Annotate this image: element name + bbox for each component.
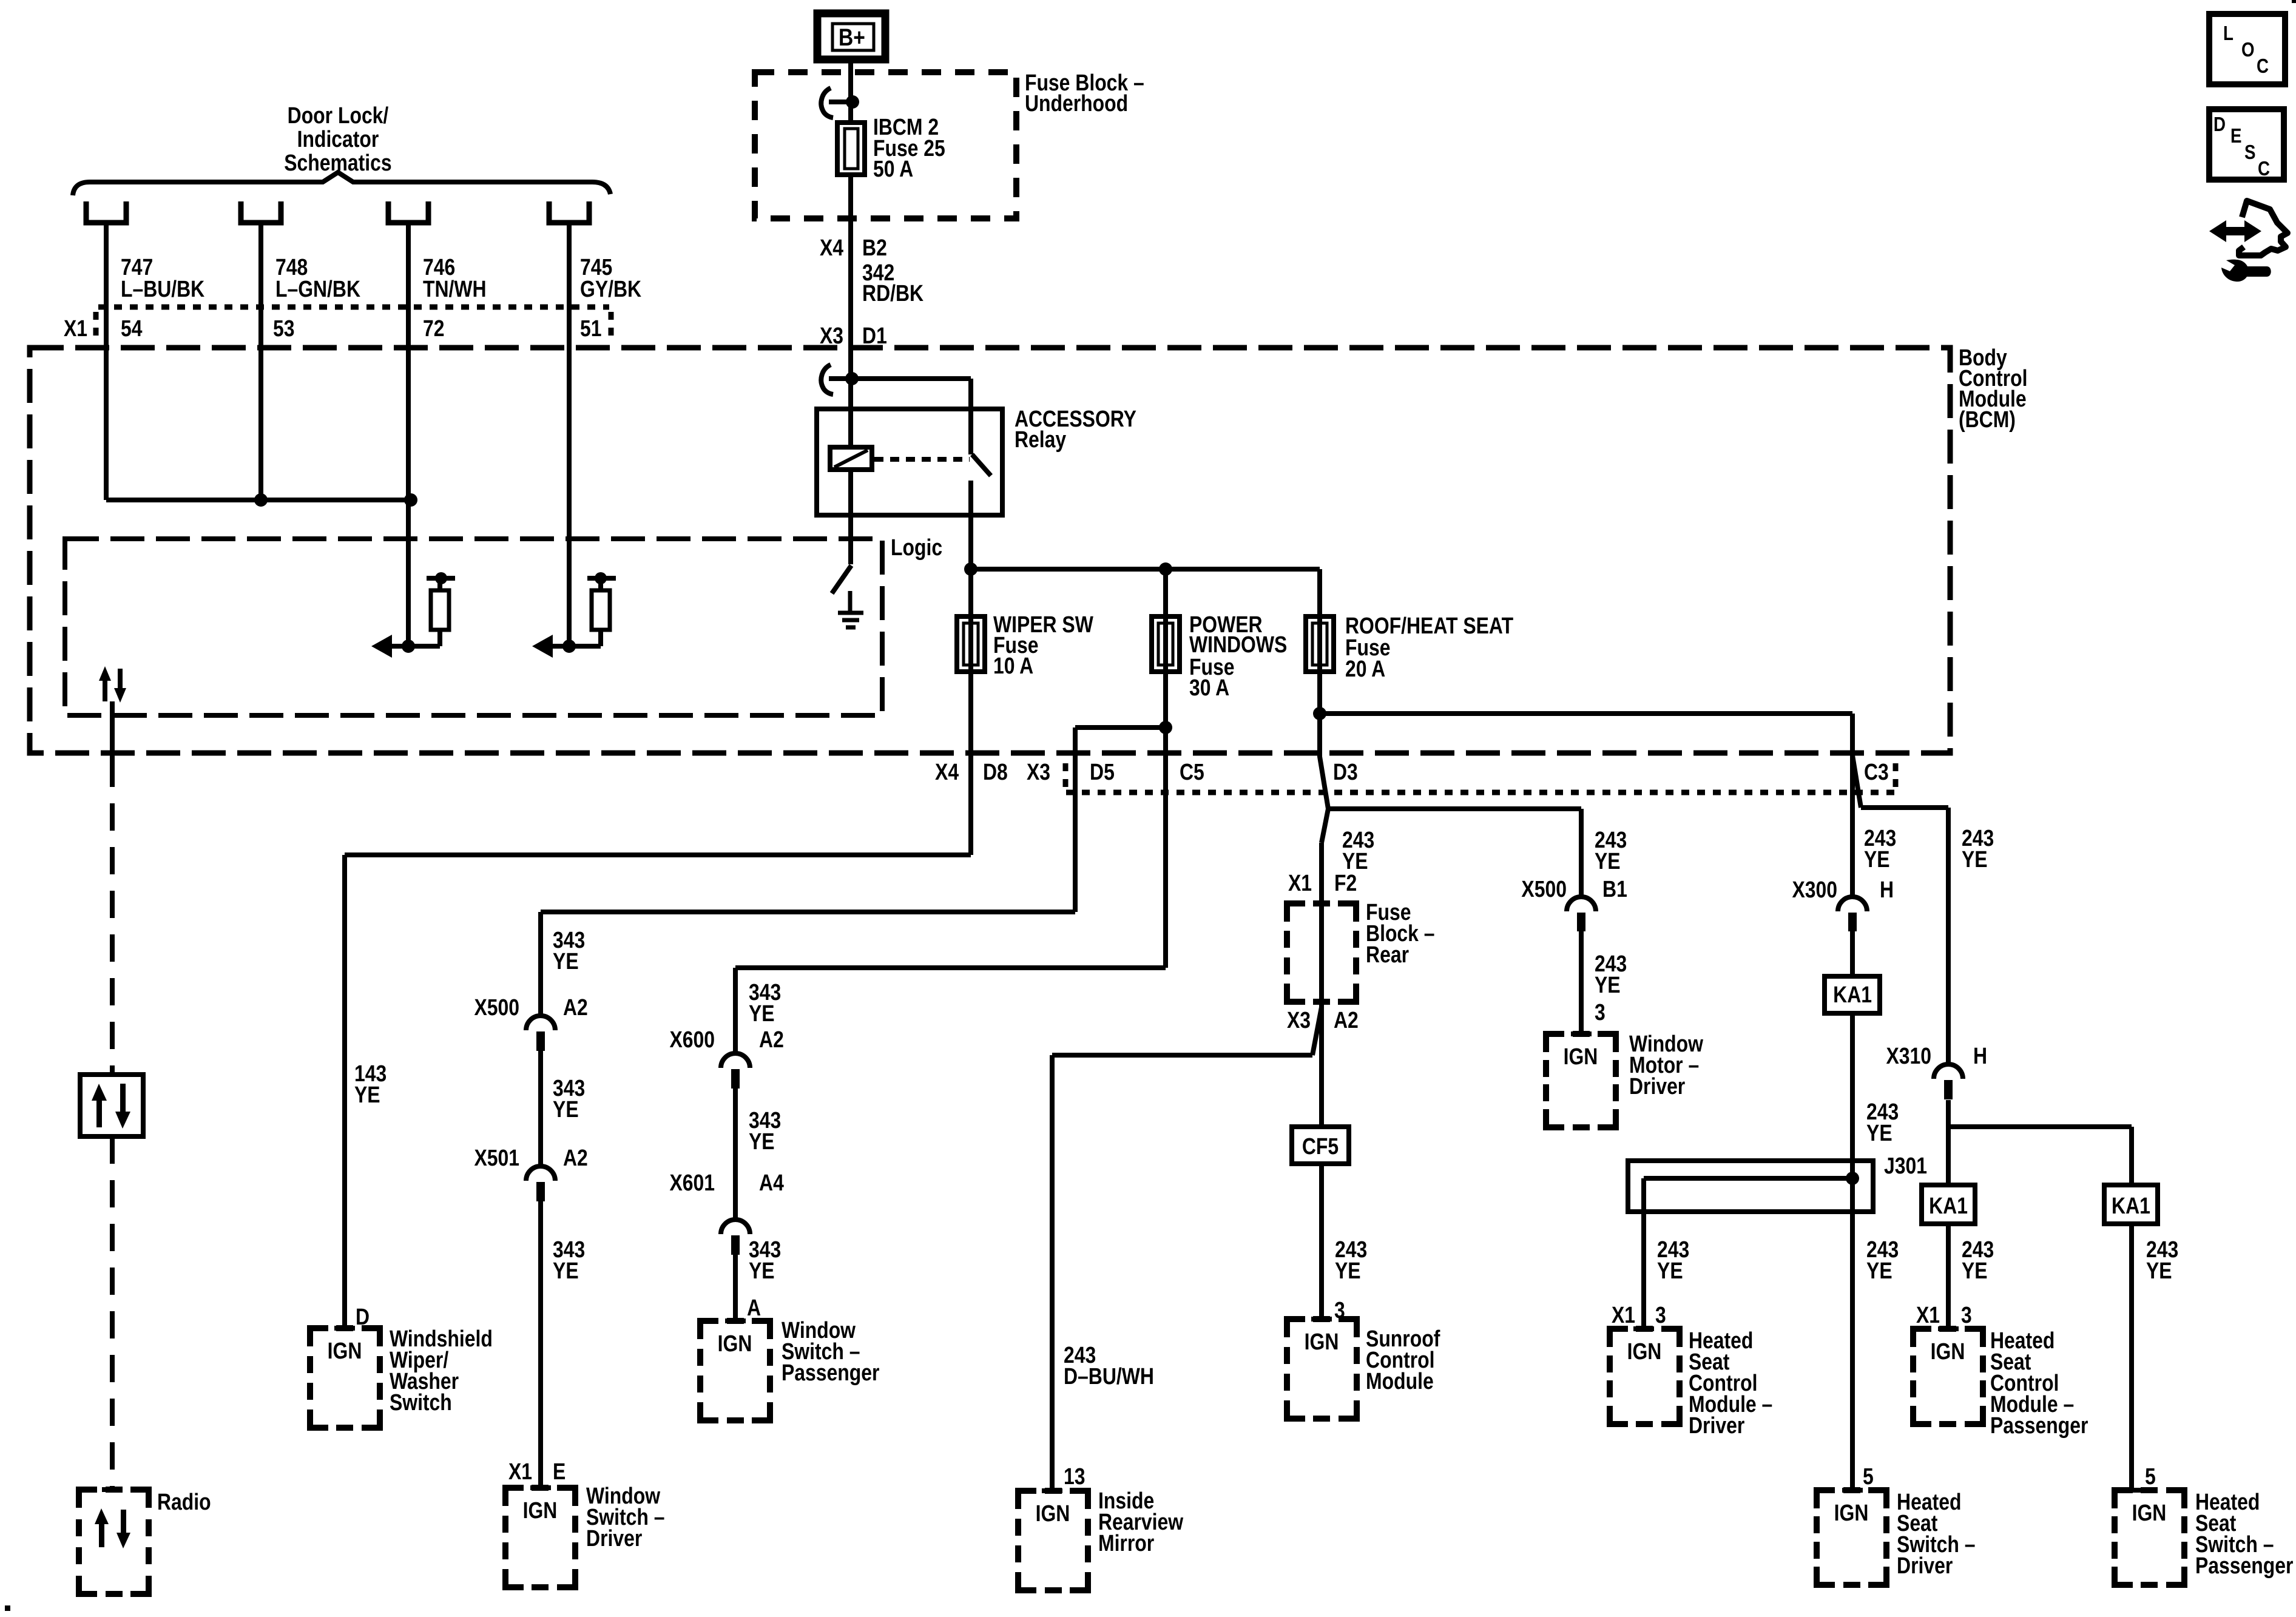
svg-text:Mirror: Mirror [1098,1530,1155,1556]
svg-text:L–BU/BK: L–BU/BK [121,276,204,302]
wire 343 YE X600 to X601 [733,1089,738,1220]
relay coil [830,447,872,470]
svg-text:TN/WH: TN/WH [423,276,487,302]
wire KA1 to heated seat switch passenger [2129,1224,2134,1490]
svg-text:Indicator: Indicator [297,126,379,152]
svg-text:X501: X501 [474,1145,520,1170]
node junction J301 [1846,1172,1859,1185]
wire 143 YE to windshield wiper switch [345,569,971,1328]
node junction 746 bus [404,493,417,507]
wire branch to heated seat switch passenger [1948,1127,2132,1185]
svg-text:3: 3 [1334,1297,1345,1323]
IGN box windshield wiper/washer switch [310,1328,380,1428]
IGN box heated seat switch passenger [2115,1490,2184,1585]
svg-text:3: 3 [1595,999,1606,1025]
svg-text:50 A: 50 A [873,156,913,181]
wire 243 D-BU/WH branch to inside rearview mirror [1052,1007,1322,1491]
wire door-lock 748 [258,223,263,500]
svg-text:GY/BK: GY/BK [580,276,641,302]
svg-text:X1: X1 [1916,1302,1940,1328]
DESC box [2209,109,2284,180]
svg-text:Relay: Relay [1015,427,1067,452]
connector row dotted line [1065,763,1896,792]
connector U pin 53 [241,201,281,223]
IGN box window switch driver [505,1488,575,1587]
clip symbol IBCM fuse [821,88,833,118]
svg-text:A: A [747,1295,761,1320]
connector X500 B1 [1567,897,1596,911]
svg-text:C5: C5 [1180,759,1204,785]
svg-text:D: D [356,1304,370,1329]
svg-text:D8: D8 [983,759,1008,785]
svg-text:YE: YE [1657,1258,1683,1283]
svg-text:3: 3 [1961,1302,1972,1328]
wire 243 YE C3 down to X300 [1850,714,1855,897]
B+ battery symbol [817,13,885,59]
svg-text:D1: D1 [862,323,887,348]
fuse block underhood dashed box [755,72,1016,218]
svg-text:KA1: KA1 [1929,1193,1968,1218]
svg-text:F2: F2 [1334,870,1357,896]
resistor element door lock 745 [551,578,616,646]
relay box KA1 switch passenger [2104,1185,2158,1224]
IGN box heated seat control module driver [1610,1329,1680,1424]
svg-text:YE: YE [1864,846,1890,872]
svg-text:X500: X500 [474,994,520,1020]
svg-text:Underhood: Underhood [1025,90,1128,116]
relay switch blade [972,454,991,476]
svg-text:X3: X3 [1287,1007,1311,1033]
wire 243 YE CF5 to sunroof control module [1319,1164,1324,1319]
svg-text:10 A: 10 A [993,653,1033,678]
wire door-lock 746 [406,223,411,646]
svg-text:X601: X601 [669,1170,715,1195]
svg-text:X1: X1 [1288,870,1312,896]
IGN box sunroof control module [1287,1319,1357,1419]
svg-text:YE: YE [749,1129,775,1154]
svg-text:YE: YE [553,948,579,974]
speck top right [2292,0,2296,3]
svg-text:51: 51 [580,316,602,341]
svg-text:Module: Module [1366,1368,1434,1394]
IGN box heated seat switch driver [1817,1490,1886,1585]
svg-text:L–GN/BK: L–GN/BK [275,276,360,302]
wire X310 to KA1 passenger [1946,1100,1951,1185]
wire J301 splice to heated seat control module driver [1644,1178,1852,1329]
svg-text:3: 3 [1655,1302,1666,1328]
wire 343 YE X500 to X501 [538,1051,543,1166]
svg-text:Door Lock/: Door Lock/ [288,103,389,128]
wire 243 YE branch to window motor [1328,809,1581,897]
wire radio feed solid [110,701,115,760]
svg-text:YE: YE [354,1082,380,1107]
door lock switch arrows [99,666,126,703]
svg-text:E: E [2230,125,2241,147]
svg-text:YE: YE [1962,846,1988,872]
svg-text:KA1: KA1 [1833,982,1872,1007]
icon double arrow with connector and wrench [2209,201,2288,282]
fuse IBCM 2 Fuse 25 50 A [837,123,865,175]
fuse POWER WINDOWS 30 A [1152,616,1180,672]
BCM dashed box [30,348,1950,753]
svg-text:B1: B1 [1602,876,1627,902]
wire KA1 through J301 to heated seat switch driver [1850,1013,1855,1490]
svg-text:D5: D5 [1090,759,1115,785]
svg-text:L: L [2223,22,2234,45]
node junction relay feed [845,372,859,385]
wire 243 YE branch to X310 [1852,755,1948,1064]
svg-text:WINDOWS: WINDOWS [1189,632,1287,657]
node junction relay output [964,562,977,576]
svg-text:30 A: 30 A [1189,675,1229,700]
svg-text:C: C [2258,158,2270,180]
wire radio feed dashed upper [110,760,115,1075]
wire relay output [968,515,973,569]
logic dashed box [65,539,882,715]
brace door lock/indicator schematics [73,172,610,195]
svg-text:Radio: Radio [157,1489,211,1514]
svg-text:YE: YE [749,1258,775,1283]
wire relay coil inside relay [848,409,853,515]
svg-text:A4: A4 [759,1170,784,1195]
svg-text:YE: YE [749,1001,775,1026]
wire junction to relay switch pin [852,379,971,409]
svg-text:72: 72 [423,316,445,341]
svg-text:Rear: Rear [1366,942,1409,967]
svg-text:Passenger: Passenger [2195,1553,2294,1578]
IGN box heated seat control module passenger [1913,1329,1983,1424]
splice J301 box [1628,1161,1873,1212]
IGN box window switch passenger [700,1321,770,1420]
wire X300 to KA1 [1850,931,1855,976]
svg-text:X3: X3 [1027,759,1050,785]
svg-text:C: C [2257,55,2269,78]
svg-text:D: D [2213,113,2226,136]
svg-text:YE: YE [1595,848,1621,874]
wire fuse bus [971,567,1320,572]
svg-text:IGN: IGN [1627,1338,1662,1364]
svg-text:KA1: KA1 [2112,1193,2150,1218]
wire KA1 to heated seat control module passenger [1946,1224,1951,1329]
wire 243 YE X500 B1 to window motor driver [1579,931,1584,1034]
svg-text:A2: A2 [563,1145,588,1170]
svg-text:Driver: Driver [586,1525,643,1551]
svg-text:(BCM): (BCM) [1959,407,2016,432]
period mark bottom left [5,1605,10,1611]
relay box KA1 driver [1825,976,1880,1013]
svg-text:X310: X310 [1886,1043,1931,1068]
svg-text:Driver: Driver [1897,1553,1953,1578]
svg-text:YE: YE [1595,972,1621,998]
wire radio feed dashed lower [110,1136,115,1490]
svg-text:O: O [2241,39,2255,61]
svg-text:H: H [1973,1043,1987,1068]
svg-text:X1: X1 [1612,1302,1635,1328]
svg-text:E: E [553,1459,566,1484]
svg-text:X1: X1 [508,1459,532,1484]
svg-text:IGN: IGN [1931,1338,1965,1364]
IGN box window motor driver [1546,1034,1616,1127]
IGN box inside rearview mirror [1018,1491,1088,1590]
svg-text:YE: YE [2146,1258,2172,1283]
svg-text:20 A: 20 A [1345,656,1385,681]
wire door-lock bus [106,498,411,502]
radio box [79,1490,149,1594]
svg-text:Switch: Switch [390,1389,452,1415]
wire 343 YE X501 to window switch driver [538,1201,543,1488]
wire 343 YE X601 to window switch passenger [733,1255,738,1321]
connector X500 A2 [526,1016,555,1030]
svg-text:A2: A2 [563,994,588,1020]
svg-text:IGN: IGN [718,1331,752,1356]
node junction power windows feed [1159,562,1172,576]
wire power windows fuse output [1163,569,1168,727]
svg-text:54: 54 [121,316,143,341]
node junction D5 branch [1159,721,1172,734]
connector X501 A2 [526,1166,555,1181]
relay box ACCESSORY [817,409,1002,515]
svg-text:IGN: IGN [328,1338,362,1363]
wire 243 YE D3 through connector [1320,714,1328,809]
svg-text:IGN: IGN [1834,1500,1869,1525]
svg-text:X500: X500 [1521,876,1567,902]
wire relay coil to logic switch [848,515,853,564]
svg-text:RD/BK: RD/BK [862,280,923,306]
svg-text:S: S [2244,141,2255,164]
node junction roof fuse output [1313,707,1326,720]
ground symbol [838,591,863,627]
connector X1 dotted strip [96,307,611,340]
svg-text:IGN: IGN [523,1497,558,1523]
svg-text:Passenger: Passenger [782,1360,880,1385]
svg-text:D–BU/WH: D–BU/WH [1064,1363,1154,1389]
svg-text:IGN: IGN [1305,1329,1339,1354]
svg-text:J301: J301 [1884,1153,1927,1178]
svg-text:Passenger: Passenger [1990,1413,2088,1438]
svg-text:YE: YE [1866,1258,1893,1283]
svg-text:B2: B2 [862,235,887,260]
wire 343 YE D5 branch to window switch driver [541,727,1166,1016]
connector X600 A2 [721,1053,750,1068]
fuse block rear dashed box [1287,903,1356,1002]
svg-text:Driver: Driver [1689,1413,1745,1438]
svg-text:X600: X600 [669,1027,715,1052]
wire door-lock 747 [104,223,109,500]
window up/down box [80,1075,143,1136]
connector X601 A4 [721,1220,750,1234]
resistor element door lock 746 [390,578,455,646]
svg-text:A2: A2 [759,1027,784,1052]
svg-text:YE: YE [1866,1120,1893,1146]
wire 343 YE C5 branch to window switch passenger [735,727,1166,1053]
logic switch blade [832,565,851,593]
svg-text:Driver: Driver [1629,1073,1686,1099]
svg-text:C3: C3 [1864,759,1889,785]
svg-text:YE: YE [553,1096,579,1122]
svg-text:13: 13 [1064,1463,1086,1489]
relay box KA1 passenger [1922,1185,1975,1224]
svg-text:X1: X1 [64,316,87,341]
svg-text:IGN: IGN [1564,1044,1598,1069]
fuse WIPER SW 10 A [957,616,985,672]
wire relay switch stubs [968,409,973,515]
connector X310 H [1934,1064,1963,1079]
svg-text:53: 53 [273,316,295,341]
connector U pin 54 [86,201,126,223]
connector U pin 51 [549,201,589,223]
svg-text:5: 5 [1863,1463,1874,1489]
svg-text:YE: YE [1962,1258,1988,1283]
relay link dashed [874,457,970,462]
fuse ROOF/HEAT SEAT 20 A [1306,616,1334,672]
fuse CF5 box [1292,1127,1349,1164]
node junction IBCM fuse [846,95,859,109]
wire roof/heat seat fuse output [1317,569,1322,714]
svg-text:IGN: IGN [1036,1501,1070,1526]
svg-text:X3: X3 [820,323,843,348]
svg-text:D3: D3 [1333,759,1358,785]
svg-text:A2: A2 [1334,1007,1359,1033]
svg-text:YE: YE [553,1258,579,1283]
svg-text:Schematics: Schematics [284,150,391,175]
svg-text:CF5: CF5 [1302,1133,1339,1159]
wire 243 YE branch right to C3 [1320,711,1852,716]
svg-text:B+: B+ [839,24,865,50]
node junction 748 bus [254,493,268,507]
svg-text:X4: X4 [935,759,959,785]
connector U pin 72 [388,201,428,223]
svg-text:X300: X300 [1792,877,1837,902]
svg-text:Logic: Logic [891,535,942,560]
svg-text:H: H [1880,877,1894,902]
svg-text:IGN: IGN [2132,1500,2167,1525]
clip symbol BCM entry [821,365,833,394]
wire B+ feed to IBCM fuse [848,59,853,123]
connector X300 H [1838,897,1867,911]
wire 342 RD/BK fuse to relay [848,175,853,409]
LOC box [2209,14,2285,84]
svg-text:YE: YE [1335,1258,1361,1283]
wire door-lock 745 [567,223,572,646]
wire 243 YE to fuse block rear [1322,809,1328,1127]
svg-text:5: 5 [2145,1463,2156,1489]
svg-text:X4: X4 [820,235,843,260]
